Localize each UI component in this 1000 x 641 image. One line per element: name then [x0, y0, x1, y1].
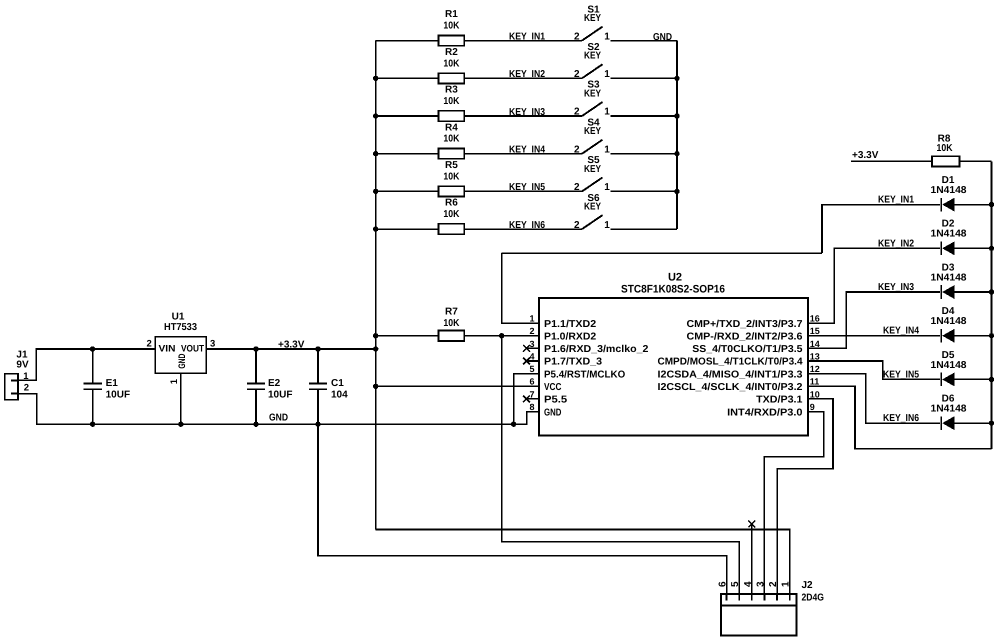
- junction right rail row 2: [674, 76, 679, 81]
- wire GND to J2 pin6: [318, 424, 727, 594]
- svg-text:3: 3: [755, 581, 766, 587]
- svg-text:10K: 10K: [443, 58, 460, 69]
- svg-text:14: 14: [810, 339, 820, 349]
- wire KEY_IN1 horizontal: [502, 252, 822, 254]
- pin 7 no-connect: [523, 396, 539, 403]
- svg-text:2: 2: [574, 220, 580, 231]
- resistor R4: [376, 122, 465, 159]
- node KEY_IN1 label: [509, 31, 545, 42]
- wire pin13 to D5: [808, 361, 940, 379]
- svg-text:C1: C1: [331, 378, 344, 389]
- diode D4: [931, 306, 992, 343]
- junction left rail row 6: [373, 226, 378, 231]
- svg-text:9V: 9V: [16, 359, 29, 370]
- junction diode rail D6: [989, 420, 994, 425]
- junction pin2/J2 branch: [499, 333, 504, 338]
- switch S4: [574, 117, 610, 155]
- svg-text:15: 15: [810, 326, 820, 336]
- wire KEY_IN1 row: [464, 40, 582, 42]
- node GND label bottom: [269, 412, 288, 423]
- wire R7 row / pin2 net: [376, 335, 539, 337]
- svg-text:2: 2: [574, 107, 580, 118]
- svg-text:+3.3V: +3.3V: [278, 339, 305, 350]
- svg-text:2: 2: [768, 581, 779, 587]
- node KEY_IN5 label at D5: [883, 369, 919, 380]
- svg-text:HT7533: HT7533: [164, 322, 197, 333]
- svg-text:10K: 10K: [443, 318, 460, 329]
- wire U1 pin3 +3.3V rail: [206, 348, 375, 350]
- wire pin2 to J2 pin5: [502, 336, 740, 594]
- node KEY_IN5 label: [509, 182, 545, 193]
- svg-text:2: 2: [574, 69, 580, 80]
- junction diode rail D1: [989, 202, 994, 207]
- svg-text:104: 104: [331, 390, 348, 401]
- svg-text:VOUT: VOUT: [181, 344, 204, 355]
- junction left rail row 4: [373, 151, 378, 156]
- diode D5: [931, 350, 992, 387]
- svg-text:11: 11: [810, 377, 820, 387]
- pin J2-4 no-connect stub: [748, 521, 755, 594]
- junction diode rail D4: [989, 333, 994, 338]
- wire pin11 to diode rail: [808, 386, 992, 449]
- svg-text:2: 2: [574, 31, 580, 42]
- junction left rail row 2: [373, 76, 378, 81]
- svg-text:10K: 10K: [443, 134, 460, 145]
- op-amp U2 MCU STC8F1K08S2: [529, 272, 819, 436]
- junction diode rail D3: [989, 289, 994, 294]
- wire S4 pin1 to rail: [611, 153, 678, 155]
- wire U1 pin1 to GND: [178, 373, 183, 427]
- svg-text:GND: GND: [653, 32, 672, 43]
- svg-text:CMP+/TXD_2/INT3/P3.7: CMP+/TXD_2/INT3/P3.7: [687, 319, 803, 330]
- wire S6 pin1 to rail: [611, 228, 678, 230]
- svg-text:7: 7: [529, 389, 534, 399]
- capacitor C1: [309, 346, 348, 427]
- svg-text:P1.1/TXD2: P1.1/TXD2: [544, 319, 597, 330]
- svg-text:1: 1: [781, 581, 792, 587]
- svg-text:E2: E2: [268, 378, 281, 389]
- wire +3.3V left rail vertical: [375, 41, 377, 530]
- wire pin10 to J2 pin2: [777, 399, 833, 594]
- svg-text:3: 3: [210, 339, 215, 350]
- capacitor E1: [83, 346, 130, 427]
- resistor R6: [376, 198, 465, 235]
- wire +3.3V to J2 pin1: [376, 530, 790, 595]
- connector J2 2D4G: [718, 580, 825, 636]
- node KEY_IN1 label at D1: [878, 195, 914, 206]
- wire pin16 to D2: [808, 248, 940, 323]
- connector J1: [5, 350, 29, 400]
- junction R7 left: [373, 333, 378, 338]
- svg-text:10K: 10K: [443, 171, 460, 182]
- svg-text:8: 8: [529, 402, 534, 412]
- junction +3.3V at rail: [373, 346, 378, 351]
- svg-text:KEY_IN3: KEY_IN3: [509, 107, 545, 118]
- diode D1: [931, 175, 992, 212]
- svg-text:KEY: KEY: [584, 13, 601, 24]
- pin 4 no-connect: [523, 358, 539, 365]
- svg-text:I2CSCL_4/SCLK_4/INT0/P3.2: I2CSCL_4/SCLK_4/INT0/P3.2: [658, 382, 803, 393]
- svg-text:STC8F1K08S2-SOP16: STC8F1K08S2-SOP16: [621, 284, 725, 296]
- wire S3 pin1 to rail: [611, 115, 678, 117]
- svg-text:1: 1: [604, 31, 610, 42]
- svg-text:1: 1: [604, 220, 610, 231]
- junction VCC at rail: [373, 384, 378, 389]
- svg-text:+3.3V: +3.3V: [852, 150, 879, 161]
- svg-text:6: 6: [529, 377, 534, 387]
- svg-text:KEY_IN2: KEY_IN2: [878, 238, 914, 249]
- node KEY_IN6 label: [509, 220, 545, 231]
- wire S2 pin1 to rail: [611, 77, 678, 79]
- junction left rail row 3: [373, 113, 378, 118]
- diode D2: [931, 219, 992, 256]
- svg-text:1N4148: 1N4148: [931, 404, 967, 415]
- svg-text:KEY: KEY: [584, 164, 601, 175]
- svg-text:10: 10: [810, 389, 820, 399]
- svg-text:KEY_IN3: KEY_IN3: [878, 282, 914, 293]
- svg-text:2: 2: [147, 339, 152, 350]
- wire J1 pin1 to +9V rail: [18, 349, 155, 380]
- junction right rail row 5: [674, 189, 679, 194]
- svg-text:2D4G: 2D4G: [802, 593, 825, 604]
- svg-text:1: 1: [529, 314, 534, 324]
- resistor R3: [376, 85, 465, 122]
- svg-text:KEY_IN4: KEY_IN4: [509, 145, 545, 156]
- resistor R8: [851, 133, 992, 166]
- svg-text:1: 1: [169, 378, 180, 384]
- wire pin5 RST to GND: [514, 374, 539, 425]
- switch S2: [574, 42, 610, 80]
- svg-text:2: 2: [24, 383, 29, 394]
- svg-text:J2: J2: [802, 580, 814, 591]
- svg-text:6: 6: [718, 581, 729, 587]
- wire KEY_IN5 row: [464, 190, 582, 192]
- capacitor E2: [247, 346, 293, 427]
- svg-text:5: 5: [529, 364, 534, 374]
- svg-text:P5.5: P5.5: [544, 395, 568, 406]
- svg-text:9: 9: [810, 402, 815, 412]
- junction left rail row 5: [373, 189, 378, 194]
- node KEY_IN6 label at D6: [883, 413, 919, 424]
- svg-text:1: 1: [604, 69, 610, 80]
- svg-text:R5: R5: [445, 160, 458, 171]
- svg-text:10K: 10K: [937, 143, 954, 154]
- switch S5: [574, 155, 610, 193]
- svg-text:VIN: VIN: [159, 344, 176, 355]
- wire KEY_IN4 row: [464, 153, 582, 155]
- diode D3: [931, 262, 992, 299]
- resistor R1: [376, 9, 465, 46]
- svg-text:R4: R4: [445, 122, 458, 133]
- svg-text:1: 1: [604, 182, 610, 193]
- wire pin15 to D4: [808, 335, 940, 337]
- svg-text:10UF: 10UF: [106, 390, 130, 401]
- svg-text:1: 1: [604, 144, 610, 155]
- svg-text:KEY: KEY: [584, 51, 601, 62]
- svg-text:4: 4: [529, 351, 534, 361]
- svg-text:GND: GND: [544, 407, 561, 418]
- svg-text:VCC: VCC: [544, 382, 561, 393]
- wire GND jog to pin8: [514, 412, 539, 425]
- resistor R5: [376, 160, 465, 197]
- svg-text:1N4148: 1N4148: [931, 185, 967, 196]
- svg-text:13: 13: [810, 351, 820, 361]
- wire D1 riser: [822, 205, 940, 254]
- svg-text:KEY: KEY: [584, 126, 601, 137]
- svg-text:KEY_IN1: KEY_IN1: [509, 31, 545, 42]
- wire KEY_IN6 row: [464, 228, 582, 230]
- svg-text:KEY_IN5: KEY_IN5: [509, 182, 545, 193]
- svg-text:1N4148: 1N4148: [931, 360, 967, 371]
- svg-text:P1.0/RXD2: P1.0/RXD2: [544, 331, 597, 342]
- svg-text:R2: R2: [445, 47, 458, 58]
- svg-text:KEY_IN2: KEY_IN2: [509, 69, 545, 80]
- svg-text:10K: 10K: [443, 21, 460, 32]
- junction right rail row 3: [674, 113, 679, 118]
- svg-text:1: 1: [604, 107, 610, 118]
- svg-text:SS_4/T0CLKO/T1/P3.5: SS_4/T0CLKO/T1/P3.5: [692, 344, 803, 355]
- svg-text:10K: 10K: [443, 209, 460, 220]
- svg-text:2: 2: [574, 144, 580, 155]
- wire switch GND right rail vertical: [676, 41, 678, 230]
- junction diode rail D2: [989, 246, 994, 251]
- switch S1: [574, 4, 610, 42]
- node GND label top right: [653, 32, 672, 43]
- svg-text:12: 12: [810, 364, 820, 374]
- svg-text:P1.7/TXD_3: P1.7/TXD_3: [544, 357, 602, 368]
- svg-text:KEY_IN1: KEY_IN1: [878, 195, 914, 206]
- wire pin9 to J2 pin3: [764, 412, 823, 594]
- svg-text:KEY_IN4: KEY_IN4: [883, 326, 919, 337]
- svg-text:2: 2: [529, 326, 534, 336]
- node KEY_IN4 label at D4: [883, 326, 919, 337]
- node KEY_IN3 label at D3: [878, 282, 914, 293]
- resistor R2: [376, 47, 465, 84]
- node KEY_IN3 label: [509, 107, 545, 118]
- svg-text:R1: R1: [445, 9, 458, 20]
- wire VCC pin6: [376, 385, 539, 387]
- svg-text:KEY_IN5: KEY_IN5: [883, 369, 919, 380]
- node KEY_IN2 label: [509, 69, 545, 80]
- svg-text:1N4148: 1N4148: [931, 272, 967, 283]
- regulator U1: [147, 312, 216, 385]
- wire U2 pin1 riser: [502, 253, 539, 323]
- svg-text:2: 2: [574, 182, 580, 193]
- wire KEY_IN2 row: [464, 77, 582, 79]
- svg-text:U2: U2: [668, 272, 682, 284]
- svg-text:INT4/RXD/P3.0: INT4/RXD/P3.0: [727, 407, 803, 418]
- node KEY_IN2 label at D2: [878, 238, 914, 249]
- svg-text:KEY_IN6: KEY_IN6: [509, 220, 545, 231]
- diode D6: [931, 394, 992, 431]
- junction diode rail D5: [989, 377, 994, 382]
- svg-text:1N4148: 1N4148: [931, 229, 967, 240]
- svg-text:P5.4/RST/MCLKO: P5.4/RST/MCLKO: [544, 369, 625, 380]
- svg-text:CMP-/RXD_2/INT2/P3.6: CMP-/RXD_2/INT2/P3.6: [687, 331, 803, 342]
- svg-text:KEY: KEY: [584, 202, 601, 213]
- wire J1 pin2 to GND rail: [18, 394, 514, 425]
- node +3.3V label: [278, 339, 305, 350]
- svg-text:R3: R3: [445, 85, 458, 96]
- svg-text:I2CSDA_4/MISO_4/INT1/P3.3: I2CSDA_4/MISO_4/INT1/P3.3: [658, 369, 803, 380]
- junction GND at RST: [511, 422, 516, 427]
- wire pin12 to D6: [808, 374, 940, 423]
- svg-text:TXD/P3.1: TXD/P3.1: [756, 395, 803, 406]
- svg-text:4: 4: [743, 581, 754, 587]
- wire pin14 to D3: [808, 292, 940, 348]
- svg-text:10UF: 10UF: [268, 390, 292, 401]
- wire diode anode rail: [991, 161, 993, 448]
- svg-text:16: 16: [810, 314, 820, 324]
- svg-text:3: 3: [529, 339, 534, 349]
- svg-text:GND: GND: [177, 354, 188, 369]
- resistor R7: [439, 307, 465, 341]
- svg-text:KEY_IN6: KEY_IN6: [883, 413, 919, 424]
- node KEY_IN4 label: [509, 145, 545, 156]
- switch S3: [574, 80, 610, 118]
- svg-text:5: 5: [730, 581, 741, 587]
- svg-text:GND: GND: [269, 412, 288, 423]
- svg-text:KEY: KEY: [584, 88, 601, 99]
- junction right rail row 4: [674, 151, 679, 156]
- svg-text:CMPD/MOSL_4/T1CLK/T0/P3.4: CMPD/MOSL_4/T1CLK/T0/P3.4: [658, 357, 803, 368]
- wire KEY_IN3 row: [464, 115, 582, 117]
- svg-text:R6: R6: [445, 198, 458, 209]
- svg-text:10K: 10K: [443, 96, 460, 107]
- wire S1 pin1 to rail: [611, 40, 678, 42]
- svg-text:P1.6/RXD_3/mclko_2: P1.6/RXD_3/mclko_2: [544, 344, 649, 355]
- svg-text:1N4148: 1N4148: [931, 316, 967, 327]
- switch S6: [574, 193, 610, 231]
- pin 3 no-connect: [523, 345, 539, 352]
- svg-text:R7: R7: [445, 307, 458, 318]
- svg-text:E1: E1: [106, 378, 119, 389]
- wire S5 pin1 to rail: [611, 190, 678, 192]
